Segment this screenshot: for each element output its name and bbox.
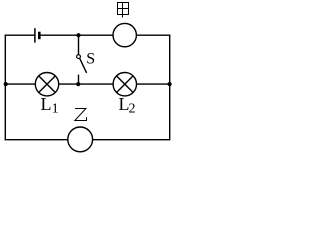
node: middle junction dot [76,82,80,86]
wire right vertical [169,35,171,141]
label yi [75,109,87,121]
wire L1 to L2 [59,83,113,85]
lamp L1 [35,73,58,96]
wire middle-left segment [5,83,35,85]
wire meter jia to right edge [136,34,170,36]
wire top-left segment [5,34,34,36]
svg-text:2: 2 [129,102,136,117]
svg-text:L: L [41,94,52,114]
svg-text:S: S [86,50,95,67]
label L2 [119,94,136,117]
label jia [118,3,129,18]
node: top junction dot [76,33,80,37]
node: left junction dot [4,82,8,86]
wire battery to meter jia [39,34,113,36]
label L1 [41,94,59,116]
switch S [77,35,87,84]
meter jia U1 [113,23,136,46]
meter yi U2 [68,127,93,152]
battery cell [35,28,39,42]
wire left vertical [4,35,6,141]
node: right junction dot [168,82,172,86]
wire bottom-left segment [5,139,68,141]
lamp L2 [113,73,136,96]
wire meter yi to right edge [93,139,170,141]
wire L2 to right edge [137,83,170,85]
svg-text:1: 1 [52,101,59,116]
